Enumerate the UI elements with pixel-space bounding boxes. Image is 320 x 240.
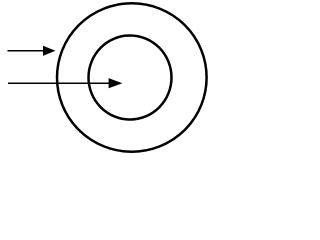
arrow 2 line — [8, 82, 110, 84]
arrow 1 head — [43, 46, 55, 56]
outer circle — [57, 3, 207, 151]
arrow 1 line — [8, 50, 46, 52]
inner circle — [89, 36, 172, 120]
arrow 2 head — [109, 78, 123, 88]
